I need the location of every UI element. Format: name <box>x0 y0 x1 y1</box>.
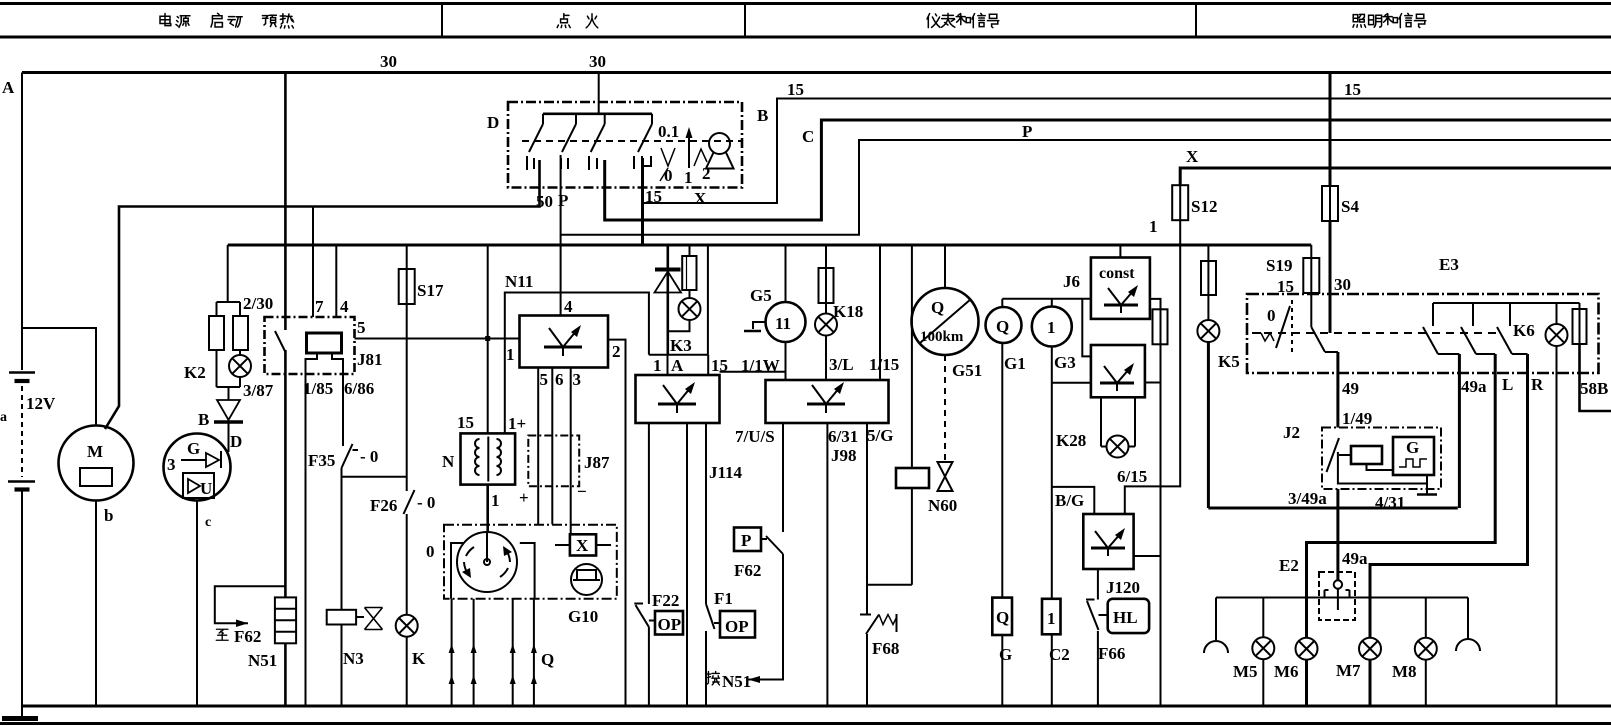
wire 30 feed into switch <box>598 73 600 114</box>
svg-text:F35: F35 <box>308 451 335 470</box>
J2 internal wires <box>1338 452 1427 484</box>
svg-text:J114: J114 <box>709 463 743 482</box>
J2 pulse generator G box <box>1393 437 1434 475</box>
svg-text:Q: Q <box>996 608 1009 627</box>
indicator arc left <box>1204 598 1228 654</box>
svg-text:E3: E3 <box>1439 255 1459 274</box>
bottom border <box>0 722 1611 725</box>
svg-text:D: D <box>230 432 242 451</box>
svg-text:HL: HL <box>1113 608 1138 627</box>
svg-text:F26: F26 <box>370 496 397 515</box>
wire N3 to ground bus <box>341 625 343 707</box>
svg-text:E2: E2 <box>1279 556 1299 575</box>
control unit J120 box <box>1083 514 1133 569</box>
coil N windings <box>475 437 501 482</box>
wire F35 branch to N3 <box>341 477 343 610</box>
wire branch to F62 (arrow) <box>215 586 286 627</box>
svg-text:6/86: 6/86 <box>344 379 374 398</box>
fuse S12 <box>1172 185 1188 220</box>
fuse+lamp K3 <box>682 245 696 298</box>
wire J114 out3 with switch F1 <box>706 423 720 706</box>
svg-text:3/87: 3/87 <box>243 381 274 400</box>
contact unit 15 <box>634 114 652 169</box>
ground bus <box>21 705 1611 708</box>
wire 6/15 from S12 <box>1125 245 1180 514</box>
wire X terminal to line C <box>605 120 1611 220</box>
hazard switch E2 box <box>1319 572 1355 620</box>
wire 15 terminal to line B <box>641 158 644 245</box>
svg-text:K3: K3 <box>670 336 692 355</box>
wire R to M7 <box>1370 354 1528 638</box>
svg-text:F66: F66 <box>1098 644 1125 663</box>
wire J6 left drop <box>1082 299 1091 357</box>
transistor in J98 <box>807 382 845 413</box>
svg-text:1: 1 <box>684 168 693 187</box>
wire X line <box>1180 168 1611 185</box>
svg-text:49: 49 <box>1342 379 1359 398</box>
wire gauges link <box>1002 298 1091 300</box>
E3 contact 49a <box>1423 303 1459 354</box>
wire hline 292.5 (coil 1 / J114) <box>505 293 649 434</box>
svg-text:const: const <box>1099 265 1135 282</box>
contact unit P <box>561 114 576 169</box>
wire lamp K to ground bus <box>406 637 408 706</box>
ignition module N11 box <box>520 316 609 368</box>
svg-text:S19: S19 <box>1266 256 1292 275</box>
switch F26 <box>404 490 415 514</box>
E3 linkage dashed <box>1264 332 1498 334</box>
svg-text:S12: S12 <box>1191 197 1217 216</box>
wire G to ground bus <box>196 501 198 707</box>
wire coil 1 to distributor rotor <box>486 485 489 534</box>
key symbol <box>706 133 734 169</box>
switch F35 <box>342 444 359 468</box>
fuse (J6) <box>1153 309 1168 344</box>
svg-text:1: 1 <box>653 356 662 375</box>
transistor in J114 <box>658 382 696 413</box>
ignition coil N box <box>461 433 516 484</box>
HL box <box>1108 599 1149 633</box>
wire A down to battery <box>21 73 23 371</box>
svg-text:A: A <box>2 78 15 97</box>
svg-text:S17: S17 <box>417 281 444 300</box>
wire stage right pin <box>1145 382 1161 384</box>
svg-text:B: B <box>198 410 209 429</box>
svg-text:C: C <box>802 127 814 146</box>
wire stage left pin <box>1052 382 1091 384</box>
svg-text:L: L <box>1502 375 1513 394</box>
svg-text:S4: S4 <box>1341 197 1359 216</box>
wire J6 top from bus1 <box>1119 245 1121 258</box>
svg-text:A: A <box>671 356 684 375</box>
light switch E3 box <box>1247 294 1599 373</box>
wire 49a from E3 <box>1458 354 1461 508</box>
svg-text:F1: F1 <box>714 589 733 608</box>
relay J81 box <box>265 317 355 374</box>
wire 15/B line <box>643 99 1611 204</box>
wire M to ground bus <box>95 501 97 707</box>
header title: 照明和信号 <box>1353 14 1366 27</box>
svg-text:15: 15 <box>1344 80 1361 99</box>
svg-text:1/85: 1/85 <box>303 379 333 398</box>
distributor cap pickup <box>571 564 602 595</box>
wire 49a horizontal <box>1208 507 1457 510</box>
wire K2 bottom node <box>217 377 241 400</box>
transistor in stage box <box>1100 363 1134 391</box>
wire 50 from switch to starter <box>105 160 540 429</box>
svg-text:6: 6 <box>555 370 564 389</box>
svg-text:J98: J98 <box>831 446 857 465</box>
svg-text:0.1: 0.1 <box>658 122 679 141</box>
svg-text:4: 4 <box>340 297 349 316</box>
svg-text:30: 30 <box>589 52 606 71</box>
gauge G1 <box>986 299 1022 343</box>
wire J114 right link 1/1W <box>720 371 786 373</box>
header top rule <box>0 2 1611 5</box>
svg-text:0: 0 <box>426 542 435 561</box>
wire 49a down to E2 <box>1336 489 1339 581</box>
lamp M5 <box>1262 598 1264 638</box>
wire branch to motor <box>22 328 96 426</box>
svg-text:3: 3 <box>167 455 176 474</box>
wire M5 to ground bus <box>1262 659 1264 706</box>
fuse S17 <box>399 245 415 304</box>
J114 top pins <box>668 355 709 375</box>
svg-text:N11: N11 <box>505 272 533 291</box>
svg-text:F68: F68 <box>872 639 899 658</box>
voltage stabilizer J6 box <box>1091 258 1150 319</box>
E3 main blade <box>1311 327 1338 352</box>
wire Q box to ground bus <box>1001 635 1003 706</box>
wire G5 down to J98 <box>785 342 787 380</box>
flasher relay J2 box <box>1322 428 1441 490</box>
svg-text:4: 4 <box>564 297 573 316</box>
svg-text:- 0: - 0 <box>360 447 378 466</box>
lamp K <box>396 615 418 637</box>
transistor in N11 <box>544 325 582 356</box>
svg-text:3/L: 3/L <box>829 355 854 374</box>
svg-text:G3: G3 <box>1054 353 1076 372</box>
wire S4 into E3 <box>1329 221 1332 333</box>
distributor inner frame <box>451 543 535 599</box>
ground symbol <box>2 716 38 721</box>
wire M7 to ground bus <box>1369 660 1372 707</box>
header separator 2 <box>744 4 746 38</box>
svg-text:OP: OP <box>725 617 749 636</box>
label 接 N51 <box>706 672 719 685</box>
switch linkage dashed <box>522 140 741 142</box>
svg-text:0: 0 <box>1267 306 1276 325</box>
wire S19 into E3 <box>1310 293 1312 327</box>
diode B/D <box>214 400 243 452</box>
E2 side pins <box>1325 590 1350 598</box>
svg-text:M7: M7 <box>1336 661 1361 680</box>
fuel gauge G3 <box>1032 299 1072 347</box>
svg-text:G1: G1 <box>1004 354 1026 373</box>
svg-text:Q: Q <box>931 298 944 317</box>
sender box Q <box>992 598 1012 635</box>
J2 ground <box>1417 484 1437 495</box>
wire 1/15 from bus1 <box>879 245 881 380</box>
wire J81 pin7 from 50-line <box>312 207 314 318</box>
svg-text:58B: 58B <box>1580 379 1608 398</box>
key position marks 0 1 2 <box>660 127 707 181</box>
svg-text:D: D <box>487 113 499 132</box>
header title: 仪表和信号 <box>927 14 940 28</box>
ignition switch D box <box>508 102 742 188</box>
wire S17 down <box>406 304 408 491</box>
wire J114 15-pin from bus1 <box>707 245 709 355</box>
wire J81 pin4 from bus1 <box>335 245 337 317</box>
svg-text:4/31: 4/31 <box>1375 493 1405 512</box>
wire F35 to junction <box>342 468 407 477</box>
relay J81 coil <box>306 333 344 374</box>
svg-text:1: 1 <box>506 345 515 364</box>
wire P terminal <box>561 140 1611 235</box>
lamp M8 <box>1425 598 1427 639</box>
wire bus1 down to coil 15 <box>487 245 489 433</box>
svg-text:1: 1 <box>491 491 500 510</box>
svg-text:P: P <box>1022 122 1032 141</box>
svg-text:3: 3 <box>573 370 582 389</box>
svg-text:15: 15 <box>787 80 804 99</box>
E3 zero contact <box>1252 300 1292 352</box>
switch F62 (P box) <box>734 528 783 555</box>
header separator 3 <box>1195 4 1197 38</box>
regulator stage box <box>1091 345 1145 397</box>
E3 contact R <box>1497 303 1528 354</box>
svg-text:+: + <box>519 488 529 507</box>
svg-text:Q: Q <box>541 650 554 669</box>
svg-text:R: R <box>1531 375 1544 394</box>
svg-text:K5: K5 <box>1218 352 1240 371</box>
lamp K6 <box>1556 303 1558 325</box>
svg-text:G10: G10 <box>568 607 598 626</box>
wire N51 to ground bus <box>284 643 287 706</box>
wire 1 box to ground bus <box>1051 634 1053 706</box>
E2 contact circle <box>1334 580 1342 610</box>
svg-text:J120: J120 <box>1106 578 1140 597</box>
wire J6 right to fuse <box>1150 299 1161 309</box>
svg-text:1: 1 <box>1149 217 1158 236</box>
svg-text:J87: J87 <box>584 453 610 472</box>
svg-text:F22: F22 <box>652 591 679 610</box>
wire J114 out2 <box>686 423 688 706</box>
header separator 1 <box>441 4 443 38</box>
fuse K18 <box>819 245 834 314</box>
distributor box G10 <box>444 525 617 599</box>
wire J81 pin5 to N11 pin1 <box>355 338 520 340</box>
svg-text:6/31: 6/31 <box>828 427 858 446</box>
wire right column to ground bus <box>1160 344 1162 706</box>
lamp K28 <box>1101 397 1135 446</box>
J114 collector bar <box>649 354 708 356</box>
svg-text:M5: M5 <box>1233 662 1258 681</box>
output stage J98 box <box>766 380 889 423</box>
svg-text:F62: F62 <box>234 627 261 646</box>
OP box F22 <box>655 611 683 635</box>
lamp K5 <box>1197 320 1219 342</box>
svg-text:1/49: 1/49 <box>1342 409 1372 428</box>
contact unit X <box>589 114 605 170</box>
svg-text:G51: G51 <box>952 361 982 380</box>
rotor circle <box>457 532 517 592</box>
svg-text:K2: K2 <box>184 363 206 382</box>
solenoid N3 <box>327 608 383 630</box>
wire K18 to J98 <box>825 336 827 381</box>
bus 30 <box>22 71 1611 74</box>
battery 12V <box>8 373 35 490</box>
contact unit 50 <box>527 114 543 170</box>
resistor box on wire <box>896 245 929 585</box>
wire 6/31 to ground bus <box>826 423 828 706</box>
dashed control link <box>944 355 946 462</box>
svg-text:F62: F62 <box>734 561 761 580</box>
diode K3 <box>655 245 682 355</box>
svg-text:N60: N60 <box>928 496 957 515</box>
J81 contact blade <box>275 331 285 352</box>
svg-text:7: 7 <box>315 297 324 316</box>
bus 1 (y=245) <box>228 244 1312 247</box>
spark wire arrowheads <box>449 644 537 684</box>
sender box 1 <box>1042 599 1061 635</box>
svg-text:N: N <box>442 452 455 471</box>
svg-text:P: P <box>558 191 568 210</box>
svg-text:G: G <box>1406 438 1419 457</box>
wire 1/85 to ground bus <box>305 374 307 706</box>
wire J81 arm from bus30 <box>284 73 287 331</box>
svg-text:M: M <box>87 442 103 461</box>
svg-text:N3: N3 <box>343 649 364 668</box>
J2 blade <box>1327 438 1340 472</box>
header bottom rule <box>0 36 1611 39</box>
wire M6 to ground bus <box>1305 660 1308 707</box>
wire to 接N51 arrow <box>748 554 783 683</box>
J2 coil <box>1339 446 1382 464</box>
svg-text:K: K <box>412 649 426 668</box>
wire lamp K3 to diode line <box>668 320 690 331</box>
svg-text:1: 1 <box>1047 318 1056 337</box>
wire 6/86 down <box>342 374 344 446</box>
fuse S4 <box>1322 73 1338 222</box>
OP box F1 <box>720 611 755 638</box>
motor M (starter) <box>59 426 134 501</box>
spark plug wires with arrows <box>452 599 534 706</box>
lamp K2 <box>229 355 251 377</box>
svg-text:a: a <box>0 410 7 425</box>
svg-text:N51: N51 <box>248 651 277 670</box>
svg-text:30: 30 <box>1334 275 1351 294</box>
transistor in J6 <box>1104 285 1138 313</box>
wire G3/C2 column <box>1051 347 1053 599</box>
svg-text:2/30: 2/30 <box>243 294 273 313</box>
svg-text:3/49a: 3/49a <box>1288 489 1327 508</box>
svg-text:G: G <box>187 439 200 458</box>
header title: 电源 启动 预热 <box>160 14 171 26</box>
svg-text:5/G: 5/G <box>867 426 893 445</box>
svg-text:b: b <box>104 506 113 525</box>
wire J120 right link <box>1134 555 1161 557</box>
svg-text:12V: 12V <box>26 394 56 413</box>
wire G1 column <box>1001 343 1003 598</box>
svg-text:- 0: - 0 <box>417 493 435 512</box>
resistors K2 (glow resistor pair) <box>209 302 248 387</box>
svg-text:Q: Q <box>996 317 1009 336</box>
svg-text:49a: 49a <box>1461 377 1487 396</box>
svg-text:1: 1 <box>1047 609 1056 628</box>
svg-text:U: U <box>200 479 212 498</box>
svg-text:1/15: 1/15 <box>869 355 899 374</box>
wire 49 to flasher J2 <box>1336 352 1339 428</box>
wire 5/G with switch F68 <box>860 423 912 706</box>
svg-text:B/G: B/G <box>1055 491 1084 510</box>
condenser J87 box <box>528 436 579 487</box>
wire J114 out1 with switch F22 <box>634 423 655 706</box>
svg-text:X: X <box>694 189 707 208</box>
lamp feed line <box>1216 597 1468 599</box>
wire L to M6 <box>1307 354 1496 638</box>
wire K5 to 49a line <box>1207 342 1210 508</box>
svg-text:49a: 49a <box>1342 549 1368 568</box>
contact breaker X box <box>555 534 611 555</box>
svg-text:B: B <box>757 106 768 125</box>
svg-text:OP: OP <box>658 615 682 634</box>
E3 contact L <box>1461 303 1495 354</box>
header title: 点 火 <box>557 14 570 28</box>
wire 7/U/S down <box>782 423 784 532</box>
fuse K5 <box>1201 245 1216 320</box>
svg-text:c: c <box>205 515 211 530</box>
fuse 58B <box>1573 303 1611 411</box>
wire M8 to ground bus <box>1425 660 1427 707</box>
lamp M7 <box>1359 638 1381 660</box>
svg-text:N51: N51 <box>722 672 751 691</box>
speedometer G51 <box>912 245 979 355</box>
wire bus1 down to K2 <box>227 245 229 302</box>
svg-text:15: 15 <box>457 413 474 432</box>
svg-text:30: 30 <box>380 52 397 71</box>
svg-text:G: G <box>999 645 1012 664</box>
lamp K3 <box>679 298 701 320</box>
svg-text:5: 5 <box>357 318 366 337</box>
glow plug resistor N51 <box>275 597 296 643</box>
wire battery to ground bus <box>21 491 23 716</box>
svg-text:P: P <box>741 531 751 550</box>
lamp M6 <box>1296 638 1318 660</box>
label 至 F62 <box>216 629 228 640</box>
svg-text:M6: M6 <box>1274 662 1299 681</box>
switch F66 <box>1086 569 1108 706</box>
wire P down to N11 pin4 <box>560 235 562 316</box>
wire S12 to bus1 <box>1179 220 1181 245</box>
svg-text:G5: G5 <box>750 286 772 305</box>
output stage J114 box <box>636 375 720 423</box>
svg-text:100km: 100km <box>920 329 964 345</box>
svg-text:J81: J81 <box>357 350 383 369</box>
lamp K18 <box>815 314 837 336</box>
svg-text:6/15: 6/15 <box>1117 467 1147 486</box>
svg-text:0: 0 <box>664 166 673 185</box>
transistor in J120 <box>1091 528 1125 556</box>
wire J81 arm lower <box>284 350 287 597</box>
svg-text:X: X <box>1186 147 1199 166</box>
valve N60 <box>938 462 953 491</box>
svg-text:K6: K6 <box>1513 321 1535 340</box>
wire N11 pin2 to ground bus <box>608 340 626 706</box>
svg-text:50: 50 <box>536 192 553 211</box>
N11 pins 5 6 3 <box>538 368 571 535</box>
svg-text:2: 2 <box>612 342 621 361</box>
